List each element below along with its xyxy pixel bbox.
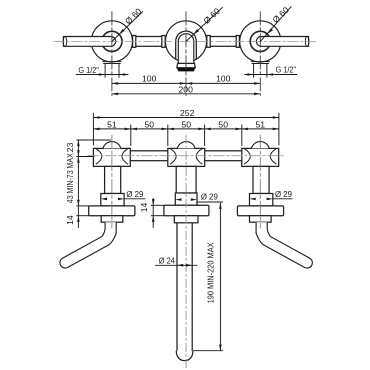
- middle spout drop tube: [177, 223, 192, 351]
- svg-text:Ø 29: Ø 29: [201, 191, 218, 201]
- wall supply pipe left segment (front view): [128, 151, 169, 161]
- diameter 60 leader right: [260, 6, 291, 41]
- middle flange 14 extension lines: [151, 204, 164, 206]
- spout aerator black ring: [177, 68, 196, 72]
- middle spout escutcheon circle (top view): [165, 21, 206, 62]
- svg-text:50: 50: [218, 120, 228, 130]
- left diameter 29 arrows and leader: [101, 198, 107, 201]
- svg-text:G 1/2": G 1/2": [276, 65, 297, 75]
- spout tube rounded end cap: [176, 351, 193, 361]
- left lever rod end cap: [63, 37, 67, 47]
- right G 1/2 dimension line: [244, 74, 297, 76]
- svg-text:200: 200: [179, 84, 194, 94]
- svg-text:14: 14: [65, 215, 75, 225]
- extension lines for 252: [92, 113, 94, 146]
- middle spout arch inner: [178, 34, 194, 64]
- right wall flange: [237, 206, 283, 216]
- wall pipe between left and middle valve (top view): [128, 37, 167, 47]
- svg-text:50: 50: [145, 120, 155, 130]
- right lever (front view): [256, 222, 312, 268]
- left lever (front view): [60, 222, 116, 268]
- svg-text:51: 51: [107, 120, 117, 130]
- wall pipe between middle and right valve (top view): [204, 37, 243, 47]
- middle fitting socket arc right: [196, 149, 202, 165]
- middle valve vertical centre line: [185, 11, 187, 96]
- horizontal centre line through valves (top view): [53, 40, 317, 42]
- diameter 24 dimension line: [155, 264, 198, 266]
- right lever handle rod (top view): [256, 37, 308, 47]
- left valve bottom chord: [102, 61, 121, 63]
- right G 1/2 extension lines: [253, 69, 255, 77]
- right collar diameter 29: [250, 194, 273, 206]
- right valve escutcheon circle (top view): [240, 21, 281, 62]
- middle flange 14 dimension line: [152, 198, 154, 228]
- svg-text:100: 100: [142, 74, 157, 84]
- svg-text:Ø 29: Ø 29: [275, 189, 292, 199]
- diameter 60 leader middle: [186, 7, 223, 41]
- pipe union nut left: [133, 36, 136, 48]
- left G 1/2 extension lines: [104, 69, 106, 77]
- right fitting socket arc right: [270, 149, 276, 165]
- left G 1/2 dimension line: [76, 74, 128, 76]
- svg-text:Ø 29: Ø 29: [126, 189, 143, 199]
- left valve escutcheon circle (top view): [91, 21, 132, 62]
- right valve bottom chord: [251, 61, 270, 63]
- left collar diameter 29: [101, 194, 124, 206]
- pipe union nut right of second pipe: [236, 36, 239, 48]
- left fitting socket arc left: [96, 149, 102, 165]
- dimension line 100 right: [186, 82, 260, 84]
- left valve cartridge ring: [102, 31, 122, 51]
- dimension line 252: [93, 117, 279, 119]
- middle spout arch outer (top view): [176, 31, 197, 60]
- middle flange hub: [174, 216, 198, 223]
- left riser centre line: [111, 135, 113, 229]
- middle wall fitting body: [168, 148, 205, 166]
- left stack extension lines: [76, 139, 111, 141]
- svg-text:Ø 24: Ø 24: [159, 256, 175, 266]
- diameter 60 leader left: [112, 11, 143, 41]
- left lever handle rod (top view): [63, 37, 115, 47]
- wall supply pipe right segment (front view): [203, 151, 244, 161]
- right valve riser tube: [253, 166, 269, 193]
- middle spout centre line: [185, 135, 187, 369]
- middle spout riser tube: [176, 166, 196, 193]
- left valve vertical centre line: [111, 11, 113, 96]
- left wall flange: [89, 206, 135, 216]
- right riser centre line: [259, 135, 261, 229]
- svg-text:252: 252: [180, 108, 195, 118]
- right flange hub: [250, 216, 272, 223]
- pipe union nut left of second pipe: [207, 36, 210, 48]
- spout aerator collar: [177, 63, 196, 67]
- right fitting socket arc left: [244, 149, 250, 165]
- svg-text:G 1/2": G 1/2": [78, 65, 99, 75]
- 190-220 bottom extension line: [193, 350, 223, 352]
- middle diameter 29 arrows and leader: [175, 198, 181, 201]
- middle wall flange: [164, 205, 209, 215]
- left G 1/2 nipple: [104, 64, 106, 70]
- left fitting dome: [103, 142, 121, 149]
- 190-220 top extension line: [197, 201, 223, 203]
- right valve vertical centre line: [259, 11, 261, 96]
- right lever rod end cap: [305, 37, 309, 47]
- left valve riser tube: [105, 166, 121, 193]
- dimension line 200: [112, 93, 260, 95]
- extension lines for 51-50 row: [130, 125, 132, 146]
- pipe union nut right of first pipe: [162, 36, 165, 48]
- left stack dimension line: [77, 140, 79, 228]
- svg-text:51: 51: [256, 120, 266, 130]
- middle collar diameter 29: [175, 193, 197, 205]
- dimension line 51 50 50 50 51: [93, 128, 279, 130]
- 190-220 dimension line: [219, 203, 221, 351]
- horizontal centre line of supply pipe (front view): [87, 155, 285, 157]
- svg-text:50: 50: [181, 120, 191, 130]
- middle fitting dome: [177, 142, 195, 149]
- right diameter 29 arrows and leader: [250, 198, 256, 201]
- svg-text:14: 14: [139, 203, 149, 213]
- svg-text:100: 100: [216, 74, 231, 84]
- left flange hub: [101, 216, 123, 223]
- svg-text:43 MIN-73 MAX: 43 MIN-73 MAX: [65, 153, 75, 203]
- dimension line 100 left: [112, 82, 186, 84]
- right wall fitting body: [242, 148, 279, 166]
- right valve cartridge ring: [250, 31, 270, 51]
- middle fitting socket arc left: [170, 149, 176, 165]
- right G 1/2 nipple: [253, 64, 255, 70]
- right fitting dome: [251, 142, 269, 149]
- left fitting socket arc right: [122, 149, 128, 165]
- left wall fitting body: [93, 148, 130, 166]
- svg-text:23: 23: [65, 142, 75, 152]
- svg-text:190 MIN-220 MAX: 190 MIN-220 MAX: [205, 242, 215, 303]
